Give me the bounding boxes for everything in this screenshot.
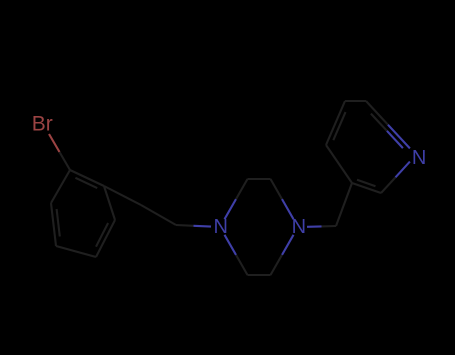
svg-text:N: N [412,147,426,169]
piperazine bond N1-C top-left half-a [225,199,237,219]
piperazine bond N2-C bottom-right half-b [271,255,283,275]
pyridine edge att-B [352,183,381,193]
chain bond ring-CH2 [104,186,141,205]
pyridine edge N-A half-b [366,101,388,125]
bond N2-CH2 half-b [322,225,337,227]
piperazine bond C-N1 bottom-left half-b [225,235,237,255]
piperazine bond N1-C top-left half-b [236,179,248,199]
pyridine edge A-D [345,100,366,102]
piperazine bond C-N1 bottom-left half-a [236,255,248,275]
benzene edge 4 [56,246,96,257]
bond N2-CH2 half-a [307,225,322,228]
pyridine edge D-E [326,101,345,145]
bond CH2-N1 half-b [194,225,212,228]
piperazine bond C-N2 top-right half-b [282,199,294,219]
C-Br bond half-a [49,134,60,152]
C-Br bond half-b [60,152,71,170]
benzene edge 6 [51,170,70,203]
bond CH2-N1 half-a [176,224,194,227]
bond CH2-pyridine [336,183,352,226]
benzene edge 3 [96,220,115,257]
pyridine edge B-N half-a [381,177,396,193]
benzene double bond 2 [96,223,108,247]
pyridine edge B-N half-b [396,162,410,178]
pyridine edge N-A half-a [388,125,410,149]
pyridine double bond 3 [357,180,376,186]
pyridine double bond 2 [333,112,345,140]
svg-text:Br: Br [32,113,53,136]
benzene edge 5 [51,203,56,246]
benzene double bond 3 [57,209,60,237]
pyridine edge E-att [326,145,352,183]
benzene edge 2 [104,186,115,220]
pyridine double bond C=N half-b [371,114,387,131]
chain bond CH2-CH2 [141,205,176,225]
piperazine bond N2-C bottom-right half-a [282,235,294,255]
piperazine bottom C-C bond [248,274,271,276]
pyridine double bond C=N half-a [387,131,403,148]
svg-text:N: N [213,216,227,238]
benzene double bond 1 [75,178,97,188]
piperazine bond C-N2 top-right half-a [271,179,283,199]
piperazine top C-C bond [248,178,271,180]
svg-text:N: N [292,216,306,238]
benzene edge 1 [70,170,104,186]
